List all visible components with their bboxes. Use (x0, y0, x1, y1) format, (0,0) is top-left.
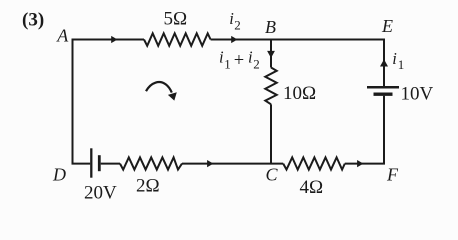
wire A to 5-ohm resistor (72, 39, 145, 41)
battery B1 20V short plate (98, 155, 101, 171)
wire 10-ohm resistor to C (270, 104, 272, 163)
arrowhead current i1 up at E (380, 59, 388, 66)
svg-text:(3): (3) (22, 10, 44, 31)
arrowhead current after 4-ohm toward F (357, 160, 363, 167)
curved arrow (loop direction) arc (146, 82, 172, 93)
svg-text:i: i (219, 47, 224, 66)
svg-text:20V: 20V (84, 183, 117, 204)
wire battery 20V to 2-ohm resistor (101, 163, 120, 165)
svg-text:C: C (266, 164, 279, 184)
svg-text:10V: 10V (401, 84, 434, 105)
arrowhead current i2 before B (231, 36, 237, 43)
svg-text:A: A (56, 25, 69, 45)
svg-text:D: D (52, 164, 66, 184)
wire 4-ohm to F (345, 163, 385, 165)
svg-text:F: F (386, 164, 399, 184)
resistor R 10ohm (265, 68, 276, 105)
battery B1 20V long plate (90, 148, 92, 177)
resistor R 5ohm (144, 33, 211, 45)
svg-text:2Ω: 2Ω (136, 176, 160, 197)
wire 5-ohm to B to E (211, 39, 385, 41)
arrowhead current after 2-ohm toward C (207, 160, 213, 167)
svg-text:+: + (234, 51, 244, 71)
svg-text:B: B (265, 17, 276, 37)
battery B2 10V long plate (367, 86, 399, 89)
wire E down to battery 10V (383, 40, 385, 87)
wire D to battery 20V (72, 163, 91, 165)
wire A-left-vertical (A to D) (72, 39, 74, 164)
resistor R 2ohm (120, 157, 182, 169)
battery B2 10V short plate (374, 92, 393, 95)
arrowhead current on wire A-B (111, 36, 117, 43)
arrowhead current i1+i2 below B (267, 51, 275, 58)
wire B down to 10-ohm resistor (270, 40, 272, 68)
wire 2-ohm to C (182, 163, 283, 165)
svg-text:2: 2 (234, 17, 241, 32)
svg-text:1: 1 (224, 56, 231, 71)
svg-text:5Ω: 5Ω (164, 9, 188, 30)
svg-text:E: E (381, 16, 393, 36)
svg-text:4Ω: 4Ω (300, 177, 324, 198)
resistor R 4ohm (283, 157, 345, 169)
svg-text:2: 2 (253, 57, 260, 72)
svg-text:10Ω: 10Ω (283, 83, 316, 104)
svg-text:1: 1 (398, 57, 405, 72)
svg-text:i: i (392, 49, 397, 68)
arrowhead of curved loop arrow (168, 92, 177, 100)
wire battery 10V to F (383, 96, 385, 164)
